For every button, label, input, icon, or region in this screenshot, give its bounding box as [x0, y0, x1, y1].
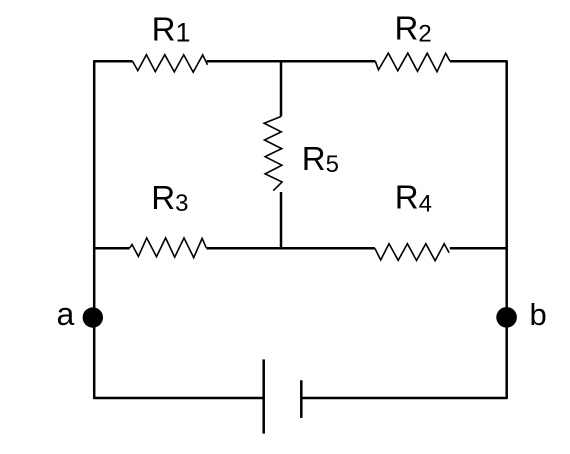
resistor R5 (vertical)	[264, 117, 282, 191]
wire: middle rail left segment (left wire to R3)	[94, 247, 129, 250]
wire: middle rail center segment (R3 to R4 through node)	[206, 247, 375, 250]
svg-text:b: b	[530, 297, 547, 332]
resistor R4	[375, 244, 449, 261]
svg-text:R1: R1	[152, 11, 191, 48]
svg-text:R5: R5	[302, 140, 339, 178]
battery: long plate (+)	[262, 359, 265, 433]
wire: right branch corner (top-right, right vertical, bottom rail to battery -)	[301, 61, 506, 398]
wire: R5 bottom lead	[280, 192, 283, 248]
battery: short plate (-)	[300, 380, 303, 418]
node b (terminal dot)	[496, 307, 517, 328]
svg-text:a: a	[57, 296, 75, 332]
resistor R3	[130, 238, 207, 258]
resistor R2	[375, 53, 450, 72]
resistor R1	[133, 55, 208, 72]
svg-text:R2: R2	[395, 10, 432, 48]
wire: middle rail right segment (R4 to right wire)	[450, 247, 507, 250]
wire: R5 top lead	[280, 61, 283, 116]
wire: left branch corner (top-left, left vertical, bottom rail to battery +)	[94, 61, 264, 398]
svg-text:R3: R3	[151, 179, 188, 217]
svg-text:R4: R4	[395, 178, 432, 217]
wire: top rail middle segment (R1 to R2)	[207, 60, 375, 63]
node a (terminal dot)	[83, 307, 103, 327]
